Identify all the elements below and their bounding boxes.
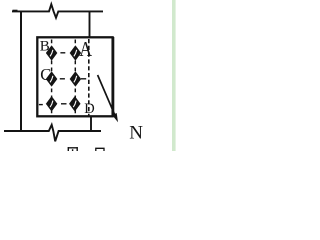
blob at start of top line [13,10,18,12]
bolt column centerline (left) [51,40,53,116]
member right edge, solid below plate [90,117,92,132]
svg-text:B: B [40,38,50,54]
svg-text:N: N [129,122,143,143]
member right edge, solid above plate [89,11,91,38]
force arrow line [98,75,115,115]
splice plate [37,37,112,116]
row 3 centerline dash between bolts [61,103,67,105]
row 2 centerline dash right [81,78,86,80]
svg-text:D: D [84,101,94,117]
svg-text:A: A [79,37,92,61]
bolt row1 right [70,46,81,61]
bolt row2 right [70,72,81,87]
row 1 centerline dash [60,52,65,54]
force arrow head [112,113,118,122]
bolt row3 left [46,96,57,111]
bolt row3 right [69,96,80,111]
row 3 centerline dash left [39,104,43,106]
bolt row1 left [46,46,57,61]
svg-text:C: C [40,65,51,84]
green stripe (page edge) [172,0,176,151]
member right edge, hidden (dashed) behind plate [88,39,90,116]
member left edge [20,11,22,132]
partial glyph 1 at bottom (cut caption text) [68,147,78,151]
bolt row2 left [46,72,57,87]
bolt column centerline (right) [74,40,76,116]
row 2 centerline dash between bolts [60,78,65,80]
member bottom edge with break symbol [4,125,101,142]
partial glyph 2 at bottom (cut caption text) [95,148,104,151]
plate right edge thickening [112,37,115,117]
member top edge with break symbol [12,4,103,18]
